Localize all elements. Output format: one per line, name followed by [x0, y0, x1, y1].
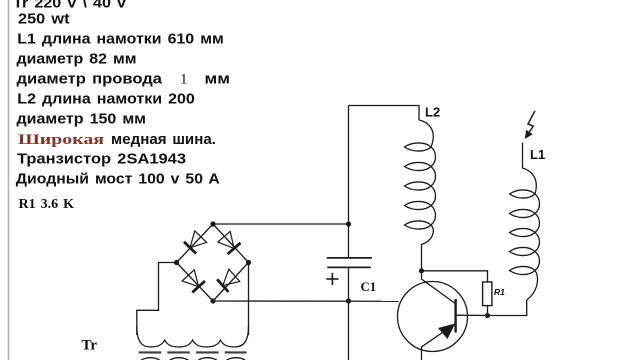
node: bridge right junction	[246, 260, 251, 265]
text block top-left	[13, 0, 230, 212]
transistor Q1 emitter line and lead	[422, 324, 456, 360]
svg-text:L2 длина намотки 200: L2 длина намотки 200	[17, 91, 195, 108]
inductor L1 top stub	[523, 143, 537, 195]
wire: base junction to R1 top	[422, 271, 488, 282]
svg-text:Tr: Tr	[82, 338, 98, 354]
wire: L2 top horizontal	[349, 106, 420, 121]
svg-text:мм: мм	[205, 71, 231, 88]
wire: right node down to transformer	[248, 263, 250, 336]
svg-text:диаметр 82 мм: диаметр 82 мм	[17, 51, 137, 68]
svg-text:диаметр провода: диаметр провода	[17, 71, 163, 88]
transformer Tr primary winding	[137, 326, 249, 347]
transformer Tr core bars	[139, 351, 247, 353]
svg-text:R1 3.6 K: R1 3.6 K	[19, 197, 75, 212]
svg-text:250 wt: 250 wt	[18, 11, 70, 28]
transistor Q1 circle	[398, 282, 468, 352]
node: bridge left junction	[174, 260, 179, 265]
svg-text:C1: C1	[361, 280, 377, 294]
svg-text:Широкая: Широкая	[18, 132, 104, 148]
inductor L2	[419, 120, 433, 147]
node: C1 bottom junction	[346, 298, 351, 303]
transistor Q1 base bar	[454, 299, 456, 333]
svg-text:медная шина.: медная шина.	[111, 131, 216, 148]
node: bridge top junction	[210, 221, 215, 226]
wire: top rail from bridge top node to C1 junction	[213, 223, 349, 225]
node: R1 bottom junction	[485, 313, 490, 318]
wire: left node step down to transformer	[137, 263, 177, 336]
transistor Q1 collector line	[457, 314, 488, 316]
diode D3 (bridge bottom-left)	[182, 270, 205, 293]
wire: L1 bottom exit	[527, 271, 538, 301]
diode D2 (bridge top-right)	[218, 231, 241, 254]
svg-text:L1 длина намотки 610 мм: L1 длина намотки 610 мм	[17, 31, 224, 48]
svg-text:L2: L2	[425, 105, 440, 120]
svg-text:L1: L1	[530, 147, 545, 162]
wire: bottom rail from bridge bottom node to transistor circle	[213, 300, 399, 302]
svg-text:1: 1	[180, 72, 188, 88]
inductor L1	[510, 190, 540, 275]
transistor Q1 emitter arrow	[438, 324, 455, 340]
svg-text:Диодный мост 100 v 50 A: Диодный мост 100 v 50 A	[16, 171, 220, 188]
wire: collector rail from junction to L1 bottom	[488, 300, 527, 316]
svg-text:Транзистор 2SA1943: Транзистор 2SA1943	[17, 151, 186, 168]
left border line	[8, 0, 10, 360]
wire: L2 bottom exit to base junction	[422, 225, 434, 271]
diode D1 (bridge top-left)	[184, 231, 207, 254]
transformer Tr secondary winding (cut off at bottom)	[138, 358, 248, 360]
wire: C1 bottom lead down to bottom edge	[348, 268, 350, 360]
svg-text:R1: R1	[494, 287, 505, 297]
spark arrow above L1	[525, 111, 535, 139]
diode D4 (bridge bottom-right)	[217, 269, 240, 292]
capacitor C1 plus sign	[326, 273, 338, 285]
resistor R1 body	[483, 282, 492, 306]
node: C1 top junction	[346, 221, 351, 226]
node: base junction	[419, 268, 424, 273]
svg-text:диаметр 150 мм: диаметр 150 мм	[17, 111, 147, 128]
capacitor C1 plates	[327, 258, 372, 268]
wire: R1 bottom lead	[487, 306, 489, 316]
node: bridge bottom junction	[210, 298, 215, 303]
wire: bridge diamond edges	[177, 224, 249, 301]
wire: vertical from L2 top corner down through C1	[348, 106, 350, 258]
transistor Q1 base lead	[422, 271, 456, 304]
